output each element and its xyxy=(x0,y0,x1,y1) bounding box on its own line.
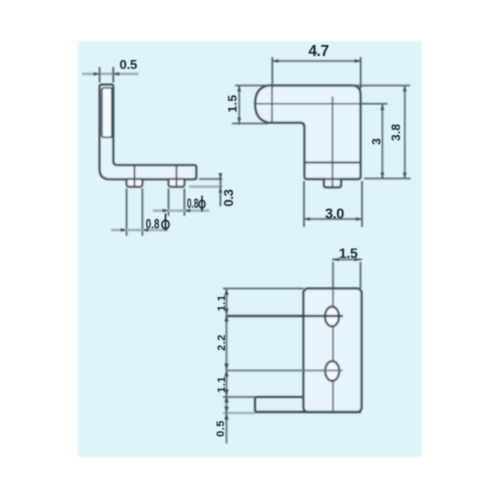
svg-text:1.1: 1.1 xyxy=(216,295,228,312)
svg-text:0.5: 0.5 xyxy=(120,57,137,72)
svg-text:4.7: 4.7 xyxy=(308,43,328,60)
svg-text:3.8: 3.8 xyxy=(389,124,403,141)
svg-text:1.5: 1.5 xyxy=(226,95,240,113)
svg-text:0.3: 0.3 xyxy=(221,189,236,206)
svg-text:2.2: 2.2 xyxy=(216,334,228,351)
svg-text:0.8: 0.8 xyxy=(187,195,199,211)
svg-text:1.5: 1.5 xyxy=(339,245,358,261)
svg-text:0.8: 0.8 xyxy=(146,215,160,231)
svg-text:3: 3 xyxy=(370,138,384,145)
svg-text:0.5: 0.5 xyxy=(215,420,227,437)
svg-text:3.0: 3.0 xyxy=(325,207,344,223)
svg-text:1.1: 1.1 xyxy=(216,376,228,393)
